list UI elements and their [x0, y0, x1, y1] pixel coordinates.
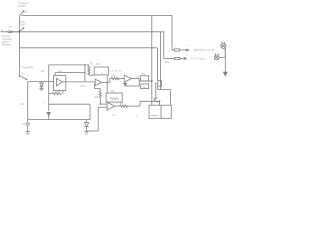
svg-text:C1: C1	[22, 122, 26, 126]
svg-text:R2: R2	[90, 61, 94, 65]
svg-text:S1: S1	[25, 10, 29, 14]
svg-text:134V?: 134V?	[19, 23, 27, 27]
svg-text:x: x	[102, 72, 104, 75]
svg-text:Tail light: Tail light	[191, 57, 206, 61]
svg-text:R6: R6	[111, 89, 115, 93]
svg-text:F1: F1	[9, 25, 13, 29]
svg-text:x1 xx x2: x1 xx x2	[110, 69, 122, 73]
svg-text:x: x	[187, 54, 189, 57]
svg-text:4C2: 4C2	[58, 69, 63, 73]
svg-text:10k: 10k	[94, 95, 99, 99]
svg-text:Breaker: Breaker	[2, 43, 11, 47]
svg-text:R7: R7	[120, 102, 124, 106]
svg-text:x2: x2	[137, 75, 140, 79]
svg-text:4x1: 4x1	[141, 72, 146, 76]
svg-text:12.8V?: 12.8V?	[18, 4, 27, 8]
svg-text:T2: T2	[151, 97, 155, 101]
svg-text:BRAKE LIGHT: BRAKE LIGHT	[194, 48, 215, 52]
svg-text:R5: R5	[112, 74, 116, 78]
svg-text:0.1u: 0.1u	[80, 84, 86, 88]
svg-text:+: +	[136, 114, 138, 117]
svg-text:1C1: 1C1	[96, 62, 101, 66]
svg-text:x: x	[187, 44, 189, 47]
svg-text:x: x	[43, 100, 45, 103]
svg-text:C3: C3	[112, 113, 116, 117]
svg-text:R1: R1	[21, 102, 25, 106]
svg-text:x: x	[175, 45, 177, 48]
svg-text:4.7k: 4.7k	[56, 89, 62, 93]
svg-text:D1: D1	[41, 69, 45, 73]
svg-text:*Turn-UP?: *Turn-UP?	[21, 66, 34, 70]
svg-text:TP1: TP1	[165, 60, 170, 64]
svg-text:S2: S2	[22, 72, 26, 76]
